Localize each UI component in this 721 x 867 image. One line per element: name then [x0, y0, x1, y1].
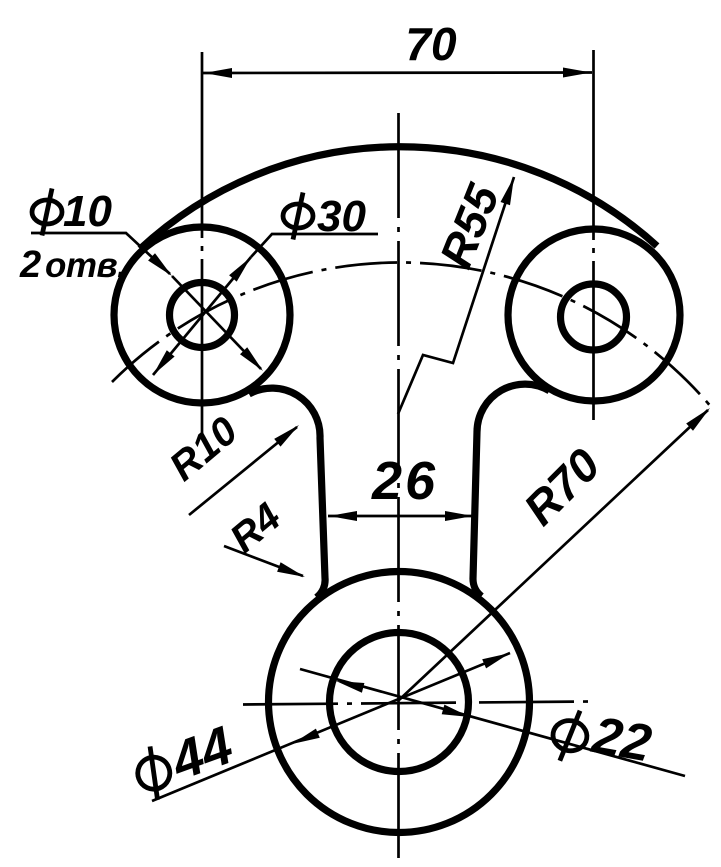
svg-text:70: 70 — [405, 18, 457, 70]
outline right stem with fillets R10 R4 — [473, 384, 549, 596]
bottom hole circle D22 — [330, 633, 469, 772]
outline left stem with fillets R10 R4 — [249, 388, 325, 597]
extension line right (70 dim) — [592, 50, 595, 420]
leader R70 — [399, 410, 708, 700]
inner diameter line D10 (second arrow) — [172, 276, 261, 369]
extension line left (70 dim) — [201, 52, 204, 437]
svg-text:30: 30 — [317, 192, 366, 241]
label D22 — [549, 699, 656, 775]
dimension line 70 — [203, 71, 592, 74]
leader D44 diameter line — [152, 653, 510, 801]
label D44 — [128, 715, 241, 805]
centerline arc R70 locating — [112, 262, 712, 408]
leader D10 — [31, 233, 170, 274]
leader R10 — [189, 427, 297, 515]
centerline horizontal bottom — [243, 702, 589, 705]
svg-text:26: 26 — [371, 451, 438, 511]
svg-text:отв.: отв. — [45, 246, 126, 285]
right boss circle D30 — [508, 229, 680, 401]
right hole circle D10 — [561, 284, 627, 350]
leader R4 — [224, 546, 303, 576]
svg-text:10: 10 — [63, 187, 112, 236]
centerline vertical main — [397, 113, 400, 858]
leader R55 zigzag — [398, 177, 514, 414]
diameter line D30 with outward arrows — [153, 257, 251, 375]
svg-text:22: 22 — [587, 706, 655, 773]
svg-text:2: 2 — [19, 244, 41, 286]
label D10 — [32, 189, 62, 236]
left boss circle D30 — [114, 227, 290, 403]
dimension line 26 — [328, 515, 474, 518]
leader D22 diameter line — [300, 669, 685, 776]
bottom boss circle D44 — [269, 572, 530, 833]
left hole circle D10 — [170, 283, 235, 348]
outline top arc R55 — [140, 147, 657, 249]
leader D30 — [251, 234, 378, 257]
label D30 — [283, 193, 313, 240]
